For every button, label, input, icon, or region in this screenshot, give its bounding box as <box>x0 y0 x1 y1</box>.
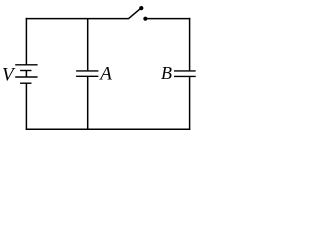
svg-text:B: B <box>161 63 172 83</box>
wire left branch upper <box>25 18 27 65</box>
wire left branch lower <box>25 83 27 130</box>
wire top-left horizontal <box>26 18 129 20</box>
capacitor A top plate <box>76 70 98 72</box>
wire top-right horizontal <box>147 18 190 20</box>
wire middle branch lower <box>87 77 89 130</box>
wire bottom horizontal <box>26 128 191 130</box>
battery V short plate 1 <box>20 70 31 72</box>
battery V long plate 2 <box>15 76 37 78</box>
svg-text:V: V <box>2 64 16 85</box>
battery V short plate 2 <box>20 82 31 84</box>
wire middle branch upper <box>87 19 89 71</box>
switch node dot (fixed contact) <box>143 17 147 21</box>
capacitor A bottom plate <box>76 75 98 77</box>
wire battery cell link <box>25 71 27 78</box>
wire right branch lower <box>189 77 191 130</box>
wire right branch upper <box>189 18 191 70</box>
capacitor B bottom plate <box>174 75 196 77</box>
switch S lever <box>129 8 141 18</box>
battery V long plate 1 <box>15 64 37 66</box>
capacitor B top plate <box>174 70 196 72</box>
svg-text:A: A <box>98 64 112 85</box>
switch node dot (lever tip) <box>139 6 143 10</box>
